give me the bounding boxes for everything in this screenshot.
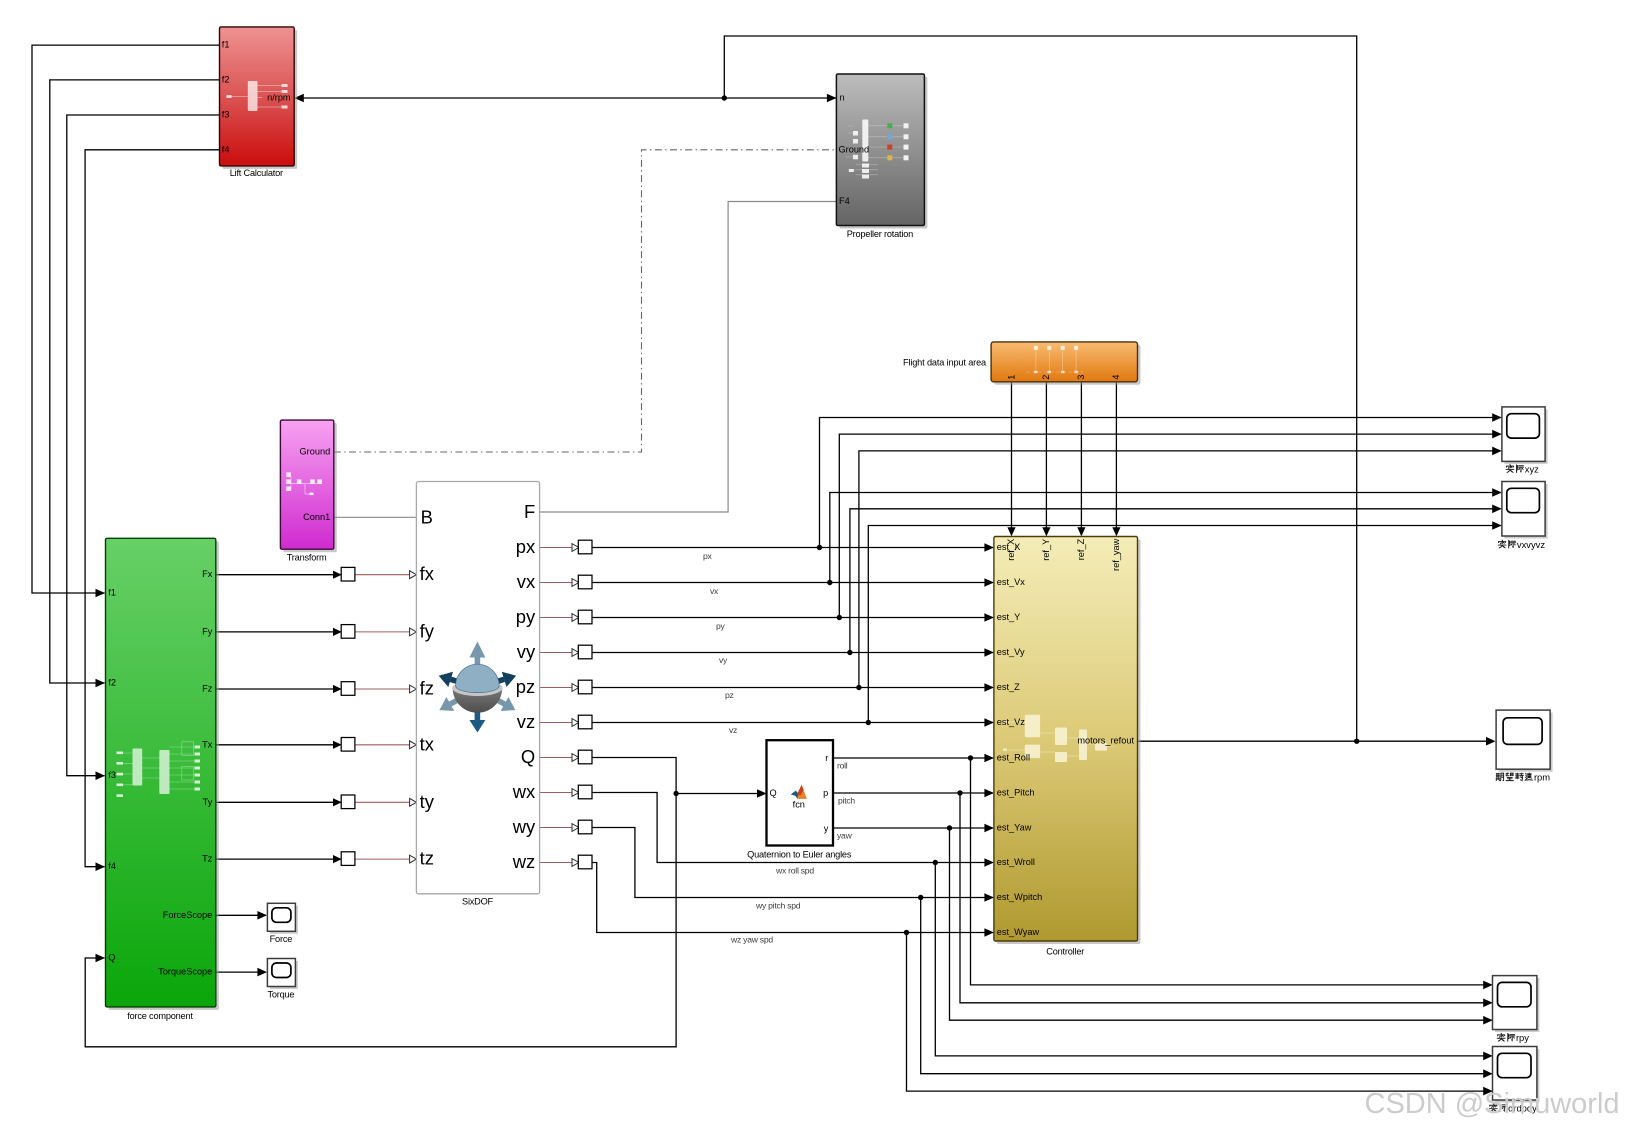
svg-text:f4: f4: [108, 861, 116, 871]
svg-text:px: px: [703, 551, 713, 561]
wire vy SixDOF to converter: [540, 652, 573, 654]
wire motors_refout to rpm scope: [1138, 740, 1494, 742]
junction vy tap: [847, 650, 852, 655]
svg-text:ref_X: ref_X: [1006, 539, 1016, 561]
arrowhead hollow into SixDOF fy: [410, 628, 417, 636]
arrowhead hollow into converter vx: [572, 579, 579, 587]
wire Conn1 to B: [334, 516, 417, 518]
wire vz SixDOF to converter: [540, 722, 573, 724]
converter block Fx: [341, 567, 355, 581]
arrowhead hollow into converter px: [572, 544, 579, 552]
wire wy tap to scope: [921, 898, 1492, 1074]
junction motors_refout tap: [1354, 739, 1359, 744]
arrowhead hollow into converter wz: [572, 859, 579, 867]
wire n to Lift Calculator and Propeller: [297, 97, 837, 99]
arrowhead hollow into converter pz: [572, 684, 579, 692]
svg-text:roll: roll: [837, 761, 848, 771]
svg-text:f3: f3: [108, 770, 116, 780]
junction wx tap: [933, 860, 938, 865]
svg-text:py: py: [716, 621, 726, 631]
svg-text:Ground: Ground: [839, 144, 870, 154]
arrowhead ref3 into Controller top: [1077, 527, 1085, 536]
arrowhead ref4 into Controller top: [1112, 527, 1120, 536]
svg-text:n: n: [840, 93, 845, 103]
svg-text:force component: force component: [127, 1011, 193, 1021]
svg-text:Torque: Torque: [267, 990, 294, 1000]
wire vy converter to Controller: [593, 652, 993, 654]
svg-text:vx: vx: [517, 571, 535, 592]
svg-text:fcn: fcn: [793, 800, 805, 810]
junction Q branch: [673, 791, 678, 796]
wire pz tap to scope: [859, 451, 1501, 688]
wire vz tap to scope: [868, 526, 1500, 723]
wire motors_refout feedback riser: [724, 36, 1356, 741]
arrowhead wx into scope: [1483, 1052, 1493, 1061]
converter block vz: [578, 715, 592, 729]
block Lift Calculator: [220, 27, 298, 169]
wire Ty converter to SixDOF: [355, 801, 409, 803]
svg-text:px: px: [516, 536, 535, 557]
svg-text:y: y: [824, 823, 829, 833]
arrowhead yaw into rpy scope: [1483, 1016, 1493, 1025]
label 实际drdpdy: [1489, 1104, 1497, 1112]
svg-text:3: 3: [1076, 375, 1086, 380]
wire TorqueScope to Torque scope: [216, 971, 266, 973]
block Quaternion to Euler angles fcn: [767, 740, 834, 845]
wire Ground dash-dot Transform to Propeller rotation: [334, 150, 837, 452]
wire vx SixDOF to converter: [540, 582, 573, 584]
wire wy SixDOF to converter: [540, 827, 573, 829]
arrowhead wy into Controller: [984, 893, 994, 902]
arrowhead hollow into converter wx: [572, 789, 579, 797]
svg-text:Transform: Transform: [287, 552, 327, 562]
svg-text:yaw: yaw: [837, 831, 853, 841]
wire Fy converter to SixDOF: [355, 631, 409, 633]
svg-text:4: 4: [1111, 375, 1121, 380]
arrowhead Tz into converter: [333, 855, 342, 863]
converter block Fz: [341, 682, 355, 696]
arrowhead roll into rpy scope: [1483, 981, 1493, 990]
wire Q loopback to force component: [85, 794, 676, 1047]
svg-text:vxvyvz: vxvyvz: [1517, 539, 1545, 550]
arrowhead pz into scope: [1492, 447, 1502, 456]
svg-text:tx: tx: [420, 733, 434, 754]
wire py tap to scope: [839, 434, 1500, 617]
wire Fx force component to converter: [216, 574, 333, 576]
arrowhead motors_refout into rpm scope: [1486, 737, 1496, 746]
arrowhead f2 into force component: [96, 679, 106, 688]
svg-text:f2: f2: [222, 74, 230, 84]
svg-text:Propeller rotation: Propeller rotation: [847, 229, 913, 239]
icon SixDOF sphere: [439, 642, 516, 733]
arrowhead vz into scope: [1492, 521, 1502, 530]
wire Q converter to Quaternion fcn: [593, 758, 766, 794]
svg-text:est_Vx: est_Vx: [997, 577, 1025, 587]
wire Fz force component to converter: [216, 688, 333, 690]
arrowhead py into scope: [1492, 430, 1502, 439]
arrowhead f1 into force component: [96, 589, 106, 598]
svg-text:ForceScope: ForceScope: [163, 910, 213, 920]
junction wy tap: [918, 895, 923, 900]
svg-text:fx: fx: [420, 563, 434, 584]
block Force scope: [270, 906, 298, 934]
converter block px: [578, 540, 592, 554]
wire wx tap to scope: [935, 863, 1491, 1056]
svg-text:vx: vx: [710, 586, 719, 596]
wire Fz converter to SixDOF: [355, 688, 409, 690]
arrowhead pitch into Controller: [984, 789, 994, 798]
arrowhead hollow into SixDOF ty: [410, 798, 417, 806]
wire wx converter to Controller: [593, 793, 993, 863]
svg-text:B: B: [421, 506, 433, 527]
arrowhead Fy into converter: [333, 628, 342, 636]
svg-text:Fx: Fx: [202, 569, 213, 579]
arrowhead hollow into converter wy: [572, 824, 579, 832]
arrowhead pitch into rpy scope: [1483, 999, 1493, 1008]
wire vz converter to Controller: [593, 722, 993, 724]
svg-text:TorqueScope: TorqueScope: [158, 967, 212, 977]
block Propeller rotation: [836, 74, 927, 229]
wire Tx converter to SixDOF: [355, 744, 409, 746]
arrowhead roll into Controller: [984, 754, 994, 763]
svg-text:fz: fz: [420, 678, 434, 699]
arrowhead px into Controller: [984, 543, 994, 552]
arrowhead vy into scope: [1492, 505, 1502, 514]
arrowhead yaw into Controller: [984, 824, 994, 833]
svg-text:Q: Q: [521, 746, 535, 767]
arrowhead Tx into converter: [333, 741, 342, 749]
svg-text:f1: f1: [108, 587, 116, 597]
wire vx tap to scope: [830, 493, 1501, 583]
svg-text:2: 2: [1041, 375, 1051, 380]
converter block Tx: [341, 738, 355, 752]
junction vx tap: [827, 580, 832, 585]
svg-text:ref_Z: ref_Z: [1076, 538, 1086, 560]
arrowhead Q into force component: [96, 954, 106, 963]
converter block wz: [578, 855, 592, 869]
arrowhead into Lift Calculator n/rpm: [294, 94, 304, 103]
wire yaw tap to scope: [950, 828, 1492, 1020]
wire wz tap to scope: [907, 933, 1492, 1092]
wire wz converter to Controller: [593, 863, 993, 933]
block Torque scope: [270, 961, 298, 989]
svg-text:Fy: Fy: [202, 626, 213, 636]
svg-text:f2: f2: [108, 677, 116, 687]
wire Ty force component to converter: [216, 801, 333, 803]
arrowhead hollow into converter Q: [572, 754, 579, 762]
wire f4 Lift Calculator to force component: [85, 150, 219, 867]
junction yaw tap: [947, 825, 952, 830]
wire py SixDOF to converter: [540, 617, 573, 619]
wire px converter to Controller: [593, 547, 993, 549]
svg-text:f3: f3: [222, 110, 230, 120]
svg-text:p: p: [823, 788, 828, 798]
svg-text:F4: F4: [839, 196, 850, 206]
wire ForceScope to Force scope: [216, 914, 266, 916]
converter block Ty: [341, 795, 355, 809]
wire wz SixDOF to converter: [540, 862, 573, 864]
svg-text:est_Vz: est_Vz: [997, 717, 1025, 727]
arrowhead wy into scope: [1483, 1069, 1493, 1078]
arrowhead Fx into converter: [333, 571, 342, 579]
svg-text:py: py: [516, 606, 536, 627]
svg-text:vz: vz: [517, 711, 535, 732]
arrowhead wz into Controller: [984, 928, 994, 937]
wire px SixDOF to converter: [540, 547, 573, 549]
wire pz SixDOF to converter: [540, 687, 573, 689]
arrowhead vz into Controller: [984, 718, 994, 727]
converter block Fy: [341, 625, 355, 639]
wire ref2 flight data to Controller: [1045, 382, 1047, 535]
arrowhead hollow into converter vz: [572, 719, 579, 727]
wire pitch Quaternion to Controller: [833, 792, 993, 794]
converter block pz: [578, 680, 592, 694]
wire yaw Quaternion to Controller: [833, 827, 993, 829]
wire roll tap to scope: [971, 758, 1492, 985]
svg-text:est_Wroll: est_Wroll: [997, 857, 1035, 867]
arrowhead hollow into SixDOF fx: [410, 571, 417, 579]
svg-text:Ty: Ty: [203, 797, 213, 807]
arrowhead Fz into converter: [333, 685, 342, 693]
wire Fy force component to converter: [216, 631, 333, 633]
converter block wy: [578, 820, 592, 834]
junction pitch tap: [957, 790, 962, 795]
svg-text:1: 1: [1006, 375, 1016, 380]
arrowhead Ty into converter: [333, 798, 342, 806]
converter block vx: [578, 575, 592, 589]
svg-text:vy: vy: [517, 641, 536, 662]
junction px tap: [817, 545, 822, 550]
label 期望转速rpm: [1496, 773, 1504, 781]
svg-text:Conn1: Conn1: [303, 512, 330, 522]
arrowhead ref2 into Controller top: [1042, 527, 1050, 536]
block scope 实际rpy: [1495, 978, 1539, 1032]
svg-text:ref_Y: ref_Y: [1041, 539, 1051, 561]
svg-text:est_Y: est_Y: [997, 612, 1021, 622]
block scope 实际drdpdy: [1495, 1049, 1539, 1103]
label 实际vxvyvz: [1498, 540, 1506, 548]
svg-text:est_Z: est_Z: [997, 682, 1020, 692]
wire Tz converter to SixDOF: [355, 858, 409, 860]
svg-text:f4: f4: [222, 144, 230, 154]
svg-text:est_Wpitch: est_Wpitch: [997, 892, 1042, 902]
wire py converter to Controller: [593, 617, 993, 619]
svg-text:Flight data input area: Flight data input area: [903, 357, 987, 367]
arrowhead into Torque scope: [257, 968, 267, 977]
wire vx converter to Controller: [593, 582, 993, 584]
arrowhead px into scope: [1492, 413, 1502, 422]
svg-text:xyz: xyz: [1525, 463, 1539, 474]
wire f3 Lift Calculator to force component: [67, 115, 220, 776]
block Controller: [994, 537, 1141, 945]
wire wx SixDOF to converter: [540, 792, 573, 794]
arrowhead hollow into SixDOF tx: [410, 741, 417, 749]
svg-text:f1: f1: [222, 40, 230, 50]
arrowhead hollow into converter vy: [572, 649, 579, 657]
svg-text:Fz: Fz: [202, 684, 213, 694]
arrowhead hollow into SixDOF fz: [410, 685, 417, 693]
junction roll tap: [968, 755, 973, 760]
junction wz tap: [904, 930, 909, 935]
block Transform: [280, 420, 336, 552]
wire pz converter to Controller: [593, 687, 993, 689]
svg-text:ty: ty: [420, 791, 435, 812]
block Flight data input area: [991, 342, 1140, 385]
svg-text:est_Roll: est_Roll: [997, 753, 1030, 763]
svg-text:Q: Q: [108, 952, 115, 962]
wire vy tap to scope: [850, 509, 1501, 653]
block scope 期望转速rpm: [1499, 713, 1553, 772]
wire px tap to scope: [820, 418, 1501, 548]
junction vz tap: [866, 720, 871, 725]
svg-text:n/rpm: n/rpm: [267, 92, 291, 102]
arrowhead wx into Controller: [984, 858, 994, 867]
wire Fx converter to SixDOF: [355, 574, 409, 576]
svg-text:wy pitch spd: wy pitch spd: [755, 901, 801, 911]
arrowhead vy into Controller: [984, 648, 994, 657]
arrowhead f4 into force component: [96, 862, 106, 871]
svg-text:est_Pitch: est_Pitch: [997, 788, 1035, 798]
wire Tx force component to converter: [216, 744, 333, 746]
arrowhead hollow into SixDOF tz: [410, 855, 417, 863]
junction py tap: [837, 615, 842, 620]
arrowhead Q into Quaternion fcn: [757, 789, 767, 798]
arrowhead vx into Controller: [984, 578, 994, 587]
converter block Tz: [341, 852, 355, 866]
arrowhead vx into scope: [1492, 488, 1502, 497]
arrowhead hollow into converter py: [572, 614, 579, 622]
wire F to F4: [540, 202, 837, 513]
svg-text:Tx: Tx: [202, 739, 213, 749]
svg-text:fy: fy: [420, 620, 435, 641]
wire ref3 flight data to Controller: [1080, 382, 1082, 535]
svg-text:Ground: Ground: [300, 446, 331, 456]
arrowhead pz into Controller: [984, 683, 994, 692]
svg-text:rpy: rpy: [1516, 1032, 1529, 1043]
svg-text:pitch: pitch: [838, 796, 855, 806]
svg-text:tz: tz: [420, 848, 434, 869]
wire f1 Lift Calculator to force component: [32, 45, 220, 593]
junction pz tap: [856, 685, 861, 690]
block scope 实际xyz: [1504, 409, 1547, 464]
label 实际xyz: [1506, 464, 1514, 472]
svg-text:F: F: [524, 501, 535, 522]
arrowhead into Propeller rotation n: [827, 94, 837, 103]
arrowhead py into Controller: [984, 613, 994, 622]
block SixDOF: [416, 482, 539, 894]
svg-text:rpm: rpm: [1534, 772, 1550, 783]
block force component: [106, 538, 219, 1010]
wire ref4 flight data to Controller: [1115, 382, 1117, 535]
svg-text:Quaternion to Euler angles: Quaternion to Euler angles: [747, 850, 852, 860]
converter block vy: [578, 645, 592, 659]
svg-text:wz yaw spd: wz yaw spd: [730, 935, 773, 945]
svg-text:ref_yaw: ref_yaw: [1111, 538, 1121, 571]
wire roll Quaternion to Controller: [833, 757, 993, 759]
svg-text:pz: pz: [725, 690, 734, 700]
svg-text:Lift Calculator: Lift Calculator: [230, 168, 283, 178]
arrowhead into Force scope: [257, 911, 267, 920]
converter block py: [578, 610, 592, 624]
svg-text:vy: vy: [719, 655, 728, 665]
svg-text:motors_refout: motors_refout: [1077, 736, 1134, 746]
wire wy converter to Controller: [593, 828, 993, 898]
wire ref1 flight data to Controller: [1011, 382, 1013, 535]
block scope 实际vxvyvz: [1504, 484, 1547, 539]
svg-text:vz: vz: [729, 725, 737, 735]
svg-text:wy: wy: [512, 816, 536, 837]
svg-text:est_Yaw: est_Yaw: [997, 823, 1032, 833]
svg-text:est_Vy: est_Vy: [997, 647, 1025, 657]
converter block wx: [578, 785, 592, 799]
svg-text:est_Wyaw: est_Wyaw: [997, 927, 1040, 937]
svg-text:Q: Q: [770, 788, 777, 798]
svg-text:SixDOF: SixDOF: [462, 897, 494, 907]
arrowhead ref1 into Controller top: [1007, 527, 1015, 536]
svg-text:Tz: Tz: [202, 854, 213, 864]
arrowhead f3 into force component: [96, 771, 106, 780]
wire f2 Lift Calculator to force component: [50, 80, 220, 683]
svg-text:pz: pz: [516, 676, 535, 697]
svg-text:Controller: Controller: [1046, 947, 1084, 957]
svg-text:r: r: [825, 753, 828, 763]
svg-text:wz: wz: [512, 851, 535, 872]
junction n wire: [722, 95, 727, 100]
wire Tz force component to converter: [216, 858, 333, 860]
svg-text:CSDN @Simuworld: CSDN @Simuworld: [1365, 1088, 1620, 1120]
wire pitch tap to scope: [960, 793, 1492, 1003]
svg-text:wx: wx: [512, 781, 535, 802]
label 实际rpy: [1497, 1033, 1505, 1041]
wire Q SixDOF to converter: [540, 757, 573, 759]
svg-text:wx roll spd: wx roll spd: [775, 866, 814, 876]
svg-text:Force: Force: [270, 934, 293, 944]
converter block Q: [578, 750, 592, 764]
arrowhead wz into scope: [1483, 1087, 1493, 1096]
